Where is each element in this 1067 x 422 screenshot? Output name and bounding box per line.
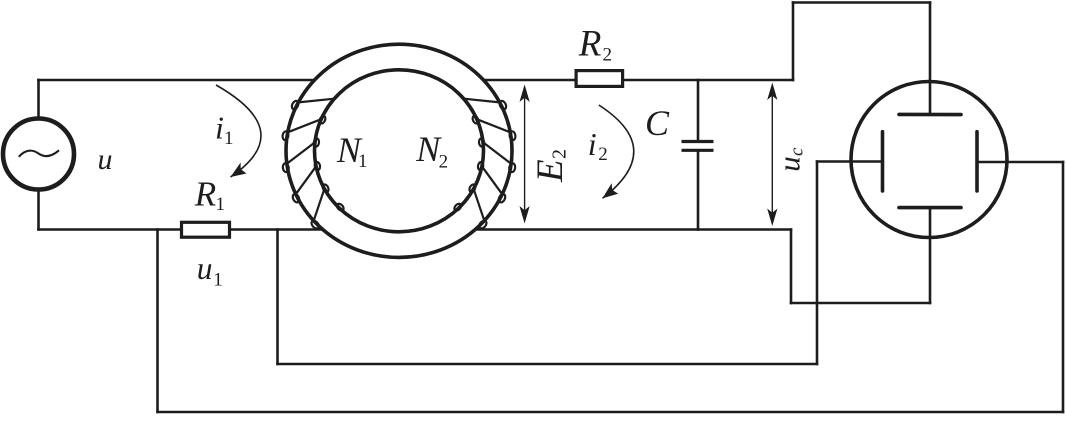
svg-text:R: R <box>194 175 216 214</box>
svg-text:i: i <box>215 110 224 146</box>
svg-text:1: 1 <box>358 151 368 172</box>
svg-text:i: i <box>588 126 597 162</box>
svg-text:1: 1 <box>216 194 226 215</box>
svg-text:2: 2 <box>549 149 571 159</box>
svg-text:u: u <box>772 156 807 172</box>
svg-text:c: c <box>786 147 807 156</box>
svg-text:1: 1 <box>224 128 234 149</box>
svg-text:E: E <box>530 159 571 183</box>
svg-text:2: 2 <box>439 151 449 172</box>
svg-text:1: 1 <box>213 269 223 290</box>
svg-text:u: u <box>98 143 113 176</box>
svg-text:R: R <box>578 24 602 65</box>
svg-text:u: u <box>197 251 213 286</box>
svg-text:2: 2 <box>603 44 613 65</box>
svg-text:2: 2 <box>598 144 608 165</box>
svg-text:C: C <box>645 103 670 143</box>
